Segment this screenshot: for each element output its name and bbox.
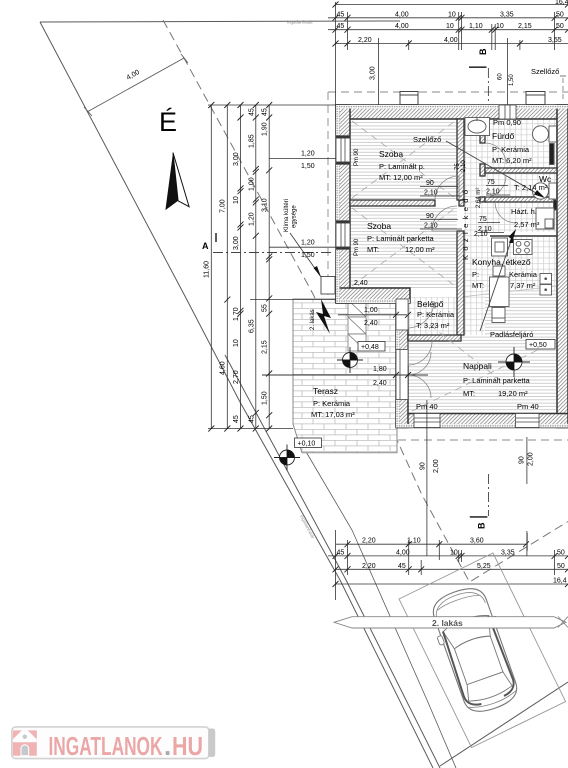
svg-text:1,20: 1,20 bbox=[248, 212, 255, 226]
svg-text:2. lakás: 2. lakás bbox=[432, 618, 463, 628]
dim line 11,60 bbox=[210, 105, 212, 429]
svg-text:P:: P: bbox=[472, 270, 479, 279]
extension horizontals left bbox=[208, 104, 336, 106]
insulation west upper bbox=[336, 105, 340, 303]
svg-text:2,10: 2,10 bbox=[474, 231, 488, 238]
svg-text:45: 45 bbox=[248, 415, 255, 423]
entrance door opening bbox=[396, 299, 408, 330]
klíma outdoor unit bbox=[321, 277, 335, 295]
washbasin fürdő bbox=[465, 118, 490, 136]
svg-text:75: 75 bbox=[479, 216, 487, 223]
room Wc floor tile bbox=[485, 173, 557, 197]
svg-text:P: Kerámia: P: Kerámia bbox=[313, 399, 351, 408]
door szoba1 bbox=[435, 176, 459, 200]
door wc bbox=[485, 176, 506, 197]
svg-text:3,35: 3,35 bbox=[500, 11, 514, 18]
road edge second line bbox=[225, 355, 440, 768]
svg-text:6,35: 6,35 bbox=[248, 319, 255, 333]
svg-text:3,10: 3,10 bbox=[262, 198, 269, 212]
door házt bbox=[495, 202, 516, 223]
svg-text:1,10: 1,10 bbox=[407, 538, 421, 545]
door belépő/nappali bbox=[408, 341, 432, 365]
door terrace leaf 1 bbox=[408, 352, 431, 375]
room Nappali floor laminate bbox=[408, 290, 557, 414]
dim row 1 bbox=[328, 17, 568, 19]
svg-text:Pm 90: Pm 90 bbox=[354, 148, 360, 166]
road edge third line bbox=[305, 450, 456, 768]
parking stall bbox=[399, 553, 566, 748]
svg-text:P: Kerámia: P: Kerámia bbox=[492, 145, 530, 154]
terrace Terasz brick paving bbox=[293, 299, 397, 453]
svg-text:19,20 m²: 19,20 m² bbox=[498, 389, 528, 398]
svg-text:90: 90 bbox=[519, 456, 526, 464]
svg-text:3,00: 3,00 bbox=[233, 152, 240, 166]
svg-text:1,20: 1,20 bbox=[301, 240, 315, 247]
svg-text:MT:: MT: bbox=[472, 281, 484, 290]
svg-text:50: 50 bbox=[556, 23, 564, 30]
insulation szoba2 south bbox=[336, 299, 410, 303]
corridor Közlekedő floor tile bbox=[464, 119, 485, 335]
extension verticals bottom bbox=[335, 530, 337, 600]
window nappali south 2 bbox=[516, 414, 540, 428]
svg-text:1,20: 1,20 bbox=[301, 151, 315, 158]
wc side bar bbox=[554, 200, 558, 210]
window nappali south 1 bbox=[414, 414, 440, 428]
svg-text:Szoba: Szoba bbox=[367, 221, 391, 231]
svg-text:Nappali: Nappali bbox=[463, 361, 492, 371]
dim row C bbox=[335, 568, 568, 570]
svg-text:MT: 12,00 m²: MT: 12,00 m² bbox=[379, 173, 423, 182]
svg-text:4,00: 4,00 bbox=[396, 549, 410, 556]
dim row D bbox=[335, 583, 568, 585]
svg-text:12,00 m²: 12,00 m² bbox=[405, 245, 435, 254]
room Fürdő floor tile bbox=[485, 119, 557, 168]
svg-text:10: 10 bbox=[233, 196, 240, 204]
svg-text:Pm 40: Pm 40 bbox=[517, 402, 539, 411]
dim line 4 bbox=[255, 105, 257, 429]
svg-text:Klíma kültéri: Klíma kültéri bbox=[284, 199, 290, 232]
svg-text:2,20: 2,20 bbox=[362, 538, 376, 545]
wall corridor east segments bbox=[480, 135, 485, 143]
svg-text:10: 10 bbox=[448, 11, 456, 18]
svg-text:45: 45 bbox=[337, 23, 345, 30]
svg-text:1,50: 1,50 bbox=[509, 74, 515, 86]
svg-text:2,64 m²: 2,64 m² bbox=[476, 188, 482, 208]
svg-text:4,00: 4,00 bbox=[444, 37, 458, 44]
svg-text:2,70: 2,70 bbox=[233, 370, 240, 384]
svg-text:7,37 m²: 7,37 m² bbox=[510, 281, 536, 290]
svg-text:P: Laminált parketta: P: Laminált parketta bbox=[367, 234, 435, 243]
svg-text:75: 75 bbox=[487, 179, 495, 186]
svg-text:2,00: 2,00 bbox=[528, 452, 535, 466]
svg-text:.: . bbox=[164, 731, 171, 761]
svg-text:1,70: 1,70 bbox=[233, 307, 240, 321]
section B bottom bbox=[488, 474, 490, 516]
ticks left block bbox=[208, 102, 272, 432]
wall exterior szoba2 south bbox=[336, 288, 410, 303]
svg-text:2,57 m³: 2,57 m³ bbox=[514, 220, 540, 229]
svg-text:Padlásfeljáró: Padlásfeljáró bbox=[490, 330, 533, 339]
svg-text:1,50: 1,50 bbox=[301, 252, 315, 259]
svg-text:ingatlanhatár: ingatlanhatár bbox=[287, 20, 314, 25]
házt arrow bbox=[509, 231, 514, 243]
svg-text:Konyha, étkező: Konyha, étkező bbox=[472, 257, 531, 267]
svg-text:2. lakás: 2. lakás bbox=[310, 309, 316, 330]
svg-text:50: 50 bbox=[557, 549, 565, 556]
dim row A bbox=[336, 543, 527, 545]
svg-text:4,00: 4,00 bbox=[395, 11, 409, 18]
svg-text:3,00: 3,00 bbox=[370, 66, 377, 80]
svg-text:2,15: 2,15 bbox=[518, 23, 532, 30]
klíma leader arrow bbox=[290, 233, 321, 277]
svg-text:+0,50: +0,50 bbox=[529, 342, 547, 349]
kitchen counter right cabinets bbox=[540, 274, 552, 285]
wall szoba1/szoba2 bbox=[350, 200, 435, 206]
svg-text:3,60: 3,60 bbox=[470, 538, 484, 545]
toilet fürdő tank bbox=[549, 126, 557, 142]
svg-text:55: 55 bbox=[262, 304, 269, 312]
svg-text:2,20: 2,20 bbox=[358, 37, 372, 44]
flue box in top wall bbox=[499, 105, 516, 119]
boundary bottom right bbox=[440, 682, 568, 766]
door szoba2 bbox=[432, 206, 457, 231]
svg-text:2,10: 2,10 bbox=[424, 190, 438, 197]
wall exterior top bbox=[336, 105, 568, 119]
logo house icon bbox=[13, 730, 37, 755]
svg-text:3,55: 3,55 bbox=[548, 37, 562, 44]
svg-text:+0,10: +0,10 bbox=[298, 441, 316, 448]
wall corridor west lower bbox=[457, 231, 464, 335]
terrace entry steps bbox=[348, 300, 366, 351]
ticks bottom rows bbox=[333, 541, 568, 587]
insulation west lower bbox=[396, 303, 400, 428]
svg-text:1,50: 1,50 bbox=[301, 163, 315, 170]
svg-text:2,00: 2,00 bbox=[433, 459, 440, 473]
window leader 2 bbox=[269, 246, 336, 248]
tick marks top rows bbox=[333, 2, 568, 47]
svg-text:2,10: 2,10 bbox=[461, 160, 467, 172]
diagonal szoba1 bbox=[352, 121, 455, 198]
svg-text:45: 45 bbox=[337, 549, 345, 556]
svg-text:A: A bbox=[202, 241, 209, 251]
svg-text:7,00: 7,00 bbox=[220, 199, 227, 213]
svg-text:MT: 17,03 m²: MT: 17,03 m² bbox=[311, 410, 355, 419]
chimney vent box top 2 bbox=[526, 92, 545, 105]
szellőző leader bbox=[446, 141, 543, 197]
wall wc south bbox=[485, 197, 557, 202]
label +0,50 bbox=[526, 340, 555, 350]
level mark +0,50 nappali bbox=[498, 347, 530, 377]
svg-text:P: Laminált p.: P: Laminált p. bbox=[379, 162, 425, 171]
svg-text:45: 45 bbox=[248, 108, 255, 116]
svg-text:60: 60 bbox=[498, 73, 504, 80]
label +0,10 bbox=[295, 438, 322, 448]
svg-text:+0,48: +0,48 bbox=[361, 344, 379, 351]
window szoba2 west bbox=[336, 223, 350, 247]
svg-text:Pm 90: Pm 90 bbox=[354, 238, 360, 256]
room Konyha floor tile bbox=[485, 237, 557, 290]
terrace french door opening bbox=[396, 350, 408, 400]
svg-text:4,00: 4,00 bbox=[126, 69, 141, 82]
property top line bbox=[40, 21, 400, 22]
door fürdő bbox=[485, 143, 506, 164]
svg-text:HU: HU bbox=[172, 731, 203, 761]
dim row 2 bbox=[328, 29, 568, 31]
svg-text:ingatlanhatár: ingatlanhatár bbox=[299, 514, 316, 540]
svg-text:1,00: 1,00 bbox=[248, 177, 255, 191]
diagonal szoba2 bbox=[352, 208, 455, 286]
insulation top bbox=[336, 105, 568, 109]
wall exterior right bbox=[557, 105, 568, 428]
dim row 0 bbox=[335, 4, 568, 6]
2. lakás band bbox=[334, 617, 566, 628]
room Házt. h. floor tile bbox=[485, 202, 557, 232]
wall exterior west lower (belépő/nappali) bbox=[396, 303, 408, 428]
svg-text:4,00: 4,00 bbox=[395, 23, 409, 30]
dim row B bbox=[328, 555, 568, 557]
chair top bbox=[493, 266, 505, 276]
svg-text:45: 45 bbox=[262, 108, 269, 116]
wall exterior bottom bbox=[397, 414, 568, 428]
svg-text:45: 45 bbox=[233, 415, 240, 423]
room Belépő floor tile bbox=[408, 297, 461, 335]
svg-text:16,4: 16,4 bbox=[555, 0, 568, 6]
svg-text:B: B bbox=[477, 522, 487, 529]
radiator fürdő bbox=[550, 144, 555, 165]
svg-text:1,90: 1,90 bbox=[262, 122, 269, 136]
kitchen sink unit bbox=[492, 238, 508, 256]
svg-text:11,60: 11,60 bbox=[204, 261, 211, 278]
north arrow bbox=[165, 153, 178, 211]
svg-text:1,10: 1,10 bbox=[469, 23, 483, 30]
svg-text:3,35: 3,35 bbox=[501, 549, 515, 556]
eaves bottom bbox=[398, 439, 568, 441]
chair bottom bbox=[492, 308, 505, 323]
svg-text:2,10: 2,10 bbox=[486, 189, 500, 196]
dim line 3 bbox=[240, 105, 242, 429]
2. lakás entrance marker arrow bbox=[316, 299, 331, 334]
wall exterior west upper (szoba) bbox=[336, 105, 350, 303]
dim line 5 bbox=[268, 105, 270, 429]
toilet wc tank bbox=[549, 183, 557, 199]
svg-text:3,00: 3,00 bbox=[233, 236, 240, 250]
dashed building line bbox=[163, 20, 568, 582]
svg-text:1,85: 1,85 bbox=[248, 134, 255, 148]
svg-text:Belépő: Belépő bbox=[417, 299, 444, 309]
svg-text:MT:: MT: bbox=[463, 389, 475, 398]
survey marker +0,10 bbox=[274, 445, 300, 471]
room Szoba 2 floor laminate bbox=[350, 206, 457, 288]
svg-text:P: Kerámia: P: Kerámia bbox=[417, 310, 455, 319]
svg-text:É: É bbox=[159, 107, 177, 137]
survey marker terasz bbox=[337, 347, 363, 373]
label +0,48 bbox=[358, 342, 385, 352]
svg-text:MT: 6,20 m²: MT: 6,20 m² bbox=[492, 156, 532, 165]
svg-text:10: 10 bbox=[450, 549, 458, 556]
eaves top bbox=[328, 91, 568, 93]
svg-text:1,50: 1,50 bbox=[262, 391, 269, 405]
svg-text:90: 90 bbox=[426, 180, 434, 187]
terrace door dim 1,80/2,40 bbox=[262, 374, 428, 376]
dining table bbox=[490, 277, 510, 307]
svg-text:P: Laminált parketta: P: Laminált parketta bbox=[463, 376, 531, 385]
svg-text:T: 3,23 m²: T: 3,23 m² bbox=[416, 321, 450, 330]
svg-text:Kerámia: Kerámia bbox=[509, 270, 538, 279]
dim line 7,00/4,60 bbox=[226, 105, 228, 429]
svg-text:Szellőző: Szellőző bbox=[413, 135, 441, 144]
svg-text:2,40: 2,40 bbox=[354, 280, 368, 287]
kitchen stove bbox=[514, 240, 533, 255]
toilet wc bowl bbox=[533, 183, 549, 199]
svg-text:16,4: 16,4 bbox=[553, 578, 567, 585]
svg-text:45: 45 bbox=[337, 11, 345, 18]
wall corridor west upper bbox=[457, 119, 464, 200]
window szoba1 west bbox=[336, 138, 350, 162]
kitchen/living floor material boundary bbox=[461, 286, 557, 297]
svg-text:10: 10 bbox=[496, 23, 504, 30]
wall fürdő south bbox=[485, 168, 557, 173]
svg-text:2,20: 2,20 bbox=[362, 563, 376, 570]
entrance dim 1,00/2,40 bbox=[338, 314, 407, 316]
svg-text:MT:: MT: bbox=[367, 245, 379, 254]
svg-text:2,10: 2,10 bbox=[424, 223, 438, 230]
svg-text:10: 10 bbox=[233, 339, 240, 347]
window extension line 2 bbox=[526, 437, 528, 484]
dimension 4,00 between boundary and building line bbox=[84, 54, 188, 116]
window leader 1 bbox=[269, 157, 336, 159]
insulation bottom bbox=[397, 424, 568, 428]
diagonal nappali bbox=[412, 342, 554, 411]
property left boundary bbox=[40, 22, 433, 768]
svg-text:Terasz: Terasz bbox=[313, 386, 338, 396]
door entrance bbox=[408, 301, 434, 328]
svg-text:Pm 0,90: Pm 0,90 bbox=[493, 118, 521, 127]
section B top bbox=[487, 68, 489, 104]
wall belépő south bbox=[408, 335, 461, 341]
svg-text:2,15: 2,15 bbox=[262, 340, 269, 354]
extension verticals top bbox=[335, 2, 337, 105]
svg-text:Fürdő: Fürdő bbox=[492, 131, 514, 141]
svg-text:50: 50 bbox=[557, 563, 565, 570]
svg-text:INGATLANOK: INGATLANOK bbox=[49, 731, 163, 761]
svg-text:egysége: egysége bbox=[292, 205, 298, 228]
dim row 3 bbox=[335, 43, 568, 45]
svg-text:5,25: 5,25 bbox=[477, 563, 491, 570]
svg-text:Házt. h.: Házt. h. bbox=[511, 207, 537, 216]
chimney vent box top 1 bbox=[400, 92, 545, 105]
door terrace leaf 2 bbox=[408, 375, 431, 398]
room Szoba 1 floor laminate bbox=[350, 119, 457, 200]
toilet fürdő bowl bbox=[533, 126, 549, 142]
svg-text:50: 50 bbox=[556, 11, 564, 18]
svg-text:4,60: 4,60 bbox=[220, 361, 227, 375]
svg-text:Szellőző: Szellőző bbox=[531, 67, 559, 76]
eaves left bbox=[327, 92, 329, 299]
svg-text:2,40: 2,40 bbox=[364, 320, 378, 327]
svg-text:Szoba: Szoba bbox=[379, 149, 403, 159]
svg-text:45: 45 bbox=[398, 563, 406, 570]
padlásfeljáró leader bbox=[480, 232, 514, 331]
svg-text:1,80: 1,80 bbox=[373, 366, 387, 373]
svg-text:2,40: 2,40 bbox=[373, 380, 387, 387]
wall kitchen north bbox=[490, 235, 557, 237]
svg-text:B: B bbox=[478, 48, 488, 55]
svg-text:10: 10 bbox=[446, 23, 454, 30]
svg-text:T: 2,14 m²: T: 2,14 m² bbox=[514, 183, 548, 192]
car bbox=[425, 582, 525, 719]
svg-text:1,00: 1,00 bbox=[364, 307, 378, 314]
svg-text:90: 90 bbox=[420, 462, 427, 470]
window extension line 1 bbox=[426, 400, 428, 556]
svg-text:90: 90 bbox=[426, 213, 434, 220]
svg-text:Közlekedő: Közlekedő bbox=[461, 190, 470, 260]
water heater házt bbox=[536, 208, 554, 229]
